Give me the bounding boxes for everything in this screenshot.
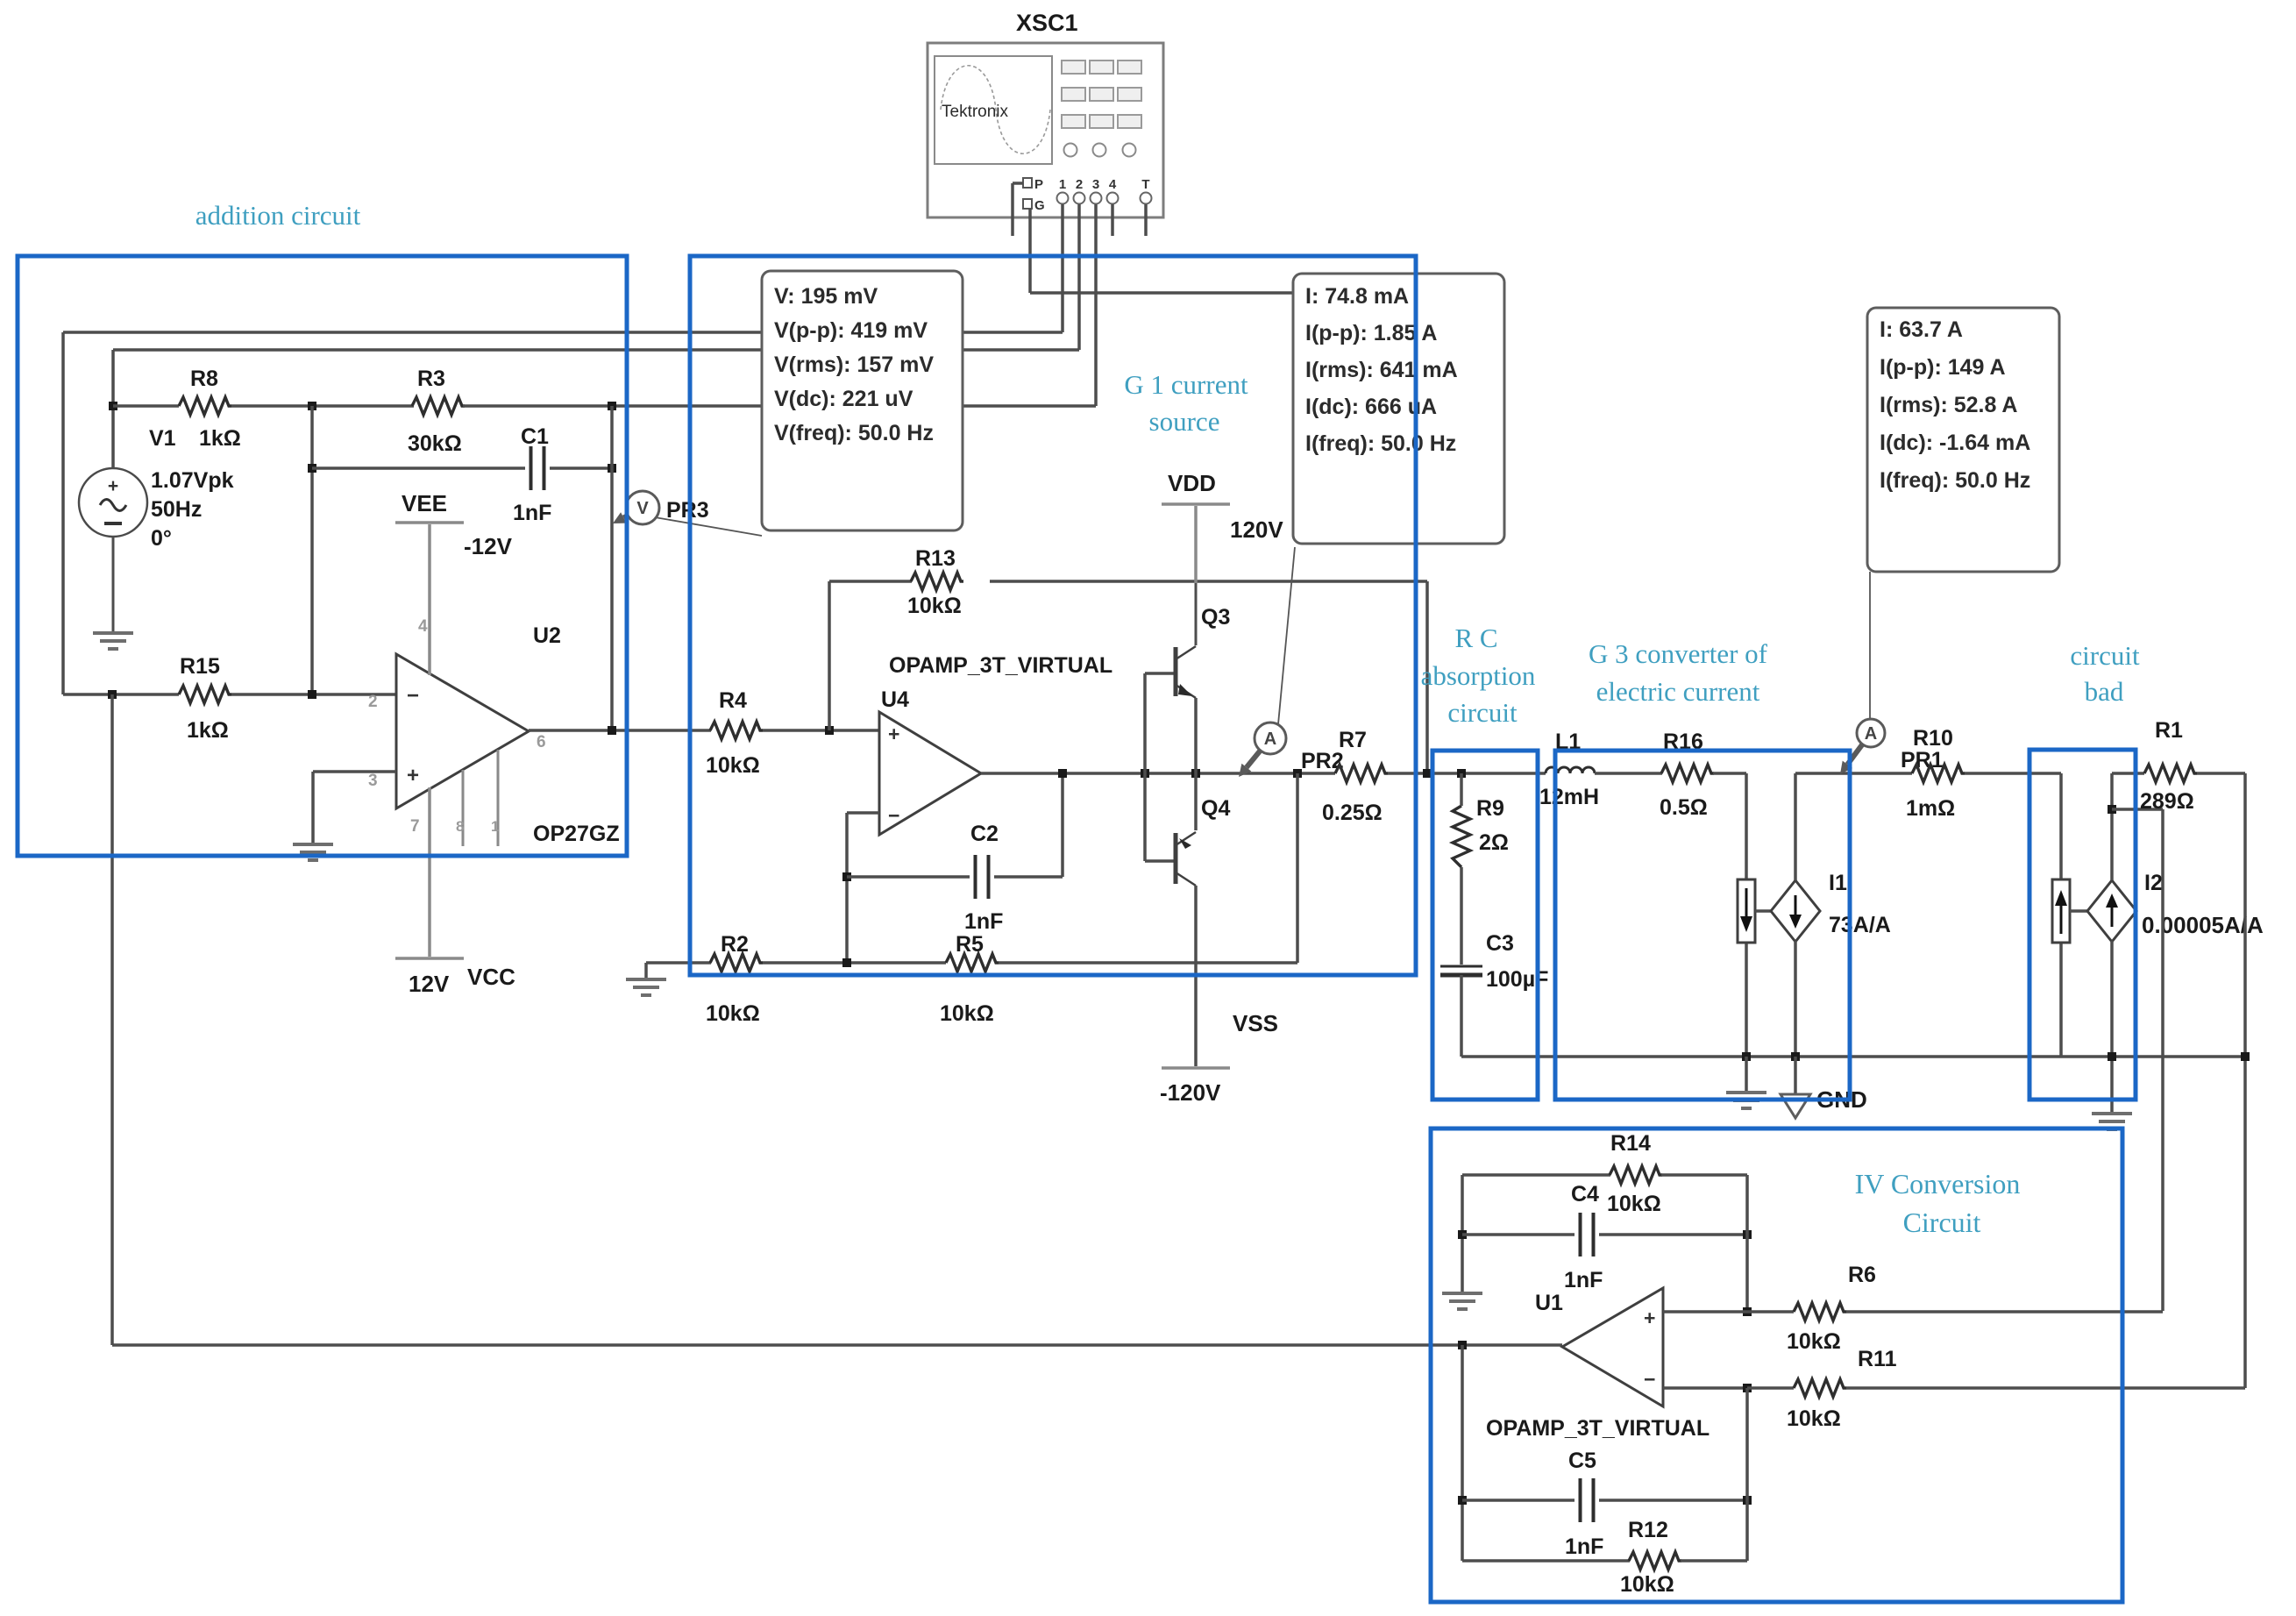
wire R15 to U2 inverting input: [231, 693, 396, 696]
ground GND symbol: [1781, 1086, 1867, 1118]
wire scope P stub: [1013, 183, 1023, 236]
wire U1 - stub: [1663, 1386, 1747, 1390]
resistor R15: [179, 654, 231, 743]
svg-text:I(rms): 52.8 A: I(rms): 52.8 A: [1880, 393, 2017, 417]
power VSS: [1160, 1010, 1278, 1106]
svg-text:I(rms): 641 mA: I(rms): 641 mA: [1305, 358, 1458, 382]
svg-text:-120V: -120V: [1160, 1079, 1221, 1106]
resistor R4: [706, 688, 763, 778]
svg-text:V1: V1: [149, 426, 176, 451]
power VDD: [1162, 470, 1283, 645]
node C1 right junction: [608, 464, 616, 473]
svg-text:8: 8: [456, 818, 464, 835]
wire U2 + input stub: [313, 772, 396, 844]
svg-text:1: 1: [1059, 177, 1066, 192]
svg-text:R5: R5: [956, 932, 984, 957]
node R13 tap: [825, 726, 834, 735]
wire R6 row: [1747, 1310, 1794, 1313]
svg-text:U2: U2: [533, 623, 561, 648]
wire bottom rail: [1461, 1055, 2245, 1058]
wire R13 return column: [1425, 581, 1429, 772]
svg-text:VCC: VCC: [467, 964, 515, 990]
svg-text:A: A: [1264, 730, 1276, 749]
node R13 return junction: [1423, 769, 1432, 778]
wire R9 to C3: [1460, 867, 1463, 965]
wire I1 link: [1755, 909, 1771, 913]
svg-text:-12V: -12V: [464, 533, 513, 559]
svg-text:C2: C2: [970, 822, 999, 846]
svg-text:absorption: absorption: [1421, 660, 1536, 691]
svg-text:1nF: 1nF: [1564, 1268, 1603, 1292]
svg-text:Tektronix: Tektronix: [942, 103, 1009, 121]
wire feedback column x128: [110, 694, 114, 1345]
probe PR2: [1239, 547, 1344, 777]
svg-text:R14: R14: [1610, 1131, 1651, 1156]
node C2 left junction: [842, 872, 851, 881]
wire I1 source corner to R10: [1795, 772, 1912, 775]
current sense I1: [1738, 879, 1755, 943]
op-amp U4: [879, 653, 1112, 835]
wire U1 + stub: [1663, 1310, 1747, 1313]
wire I2 sense column: [2059, 773, 2063, 1057]
node C4 right: [1743, 1230, 1752, 1239]
svg-text:R11: R11: [1858, 1347, 1897, 1371]
node R15 right junction: [308, 690, 316, 699]
resistor R7: [1322, 728, 1388, 825]
svg-text:1nF: 1nF: [1565, 1534, 1603, 1559]
region box RC absorption: [1432, 751, 1538, 1100]
wire node-A row to scope ch1: [63, 331, 1063, 334]
wire C4 right column: [1745, 1175, 1749, 1312]
svg-text:R4: R4: [719, 688, 747, 713]
wire L1 to R16: [1595, 772, 1662, 775]
wire R6 to column: [1846, 1310, 2163, 1313]
svg-text:10kΩ: 10kΩ: [1787, 1406, 1841, 1431]
region box G1 current source: [690, 256, 1416, 975]
resistor R11: [1787, 1347, 1897, 1431]
svg-text:U4: U4: [881, 687, 909, 712]
probe readout PR2 box: [1293, 274, 1504, 544]
wire R5 to emitter node: [999, 773, 1297, 963]
wire scope ch4 stub: [1111, 204, 1114, 236]
wire R16 to I1 sense corner: [1713, 772, 1746, 775]
svg-text:1nF: 1nF: [964, 909, 1003, 934]
svg-text:IV Conversion: IV Conversion: [1855, 1168, 2021, 1200]
svg-text:Q4: Q4: [1201, 796, 1230, 821]
svg-text:OPAMP_3T_VIRTUAL: OPAMP_3T_VIRTUAL: [1486, 1416, 1710, 1441]
svg-text:10kΩ: 10kΩ: [1607, 1192, 1661, 1216]
node C4 left: [1458, 1230, 1467, 1239]
wire R13 column: [828, 581, 831, 730]
wire C2 row right: [994, 773, 1063, 877]
wire I2 link: [2070, 909, 2087, 913]
wire R14 left column: [1461, 1175, 1464, 1293]
svg-text:−: −: [1644, 1368, 1655, 1391]
svg-text:73A/A: 73A/A: [1829, 913, 1891, 937]
node R8 left: [109, 402, 117, 410]
svg-text:G: G: [1034, 198, 1045, 213]
probe PR3: [613, 491, 762, 536]
wire output column x698: [610, 406, 614, 730]
wire C3 to bottom rail: [1460, 975, 1463, 1057]
svg-text:10kΩ: 10kΩ: [907, 594, 962, 618]
svg-text:−: −: [888, 804, 899, 827]
node main-1306: [1141, 769, 1149, 778]
svg-text:VEE: VEE: [402, 490, 447, 516]
wire R12 row left: [1462, 1559, 1630, 1563]
svg-text:1kΩ: 1kΩ: [199, 426, 241, 451]
wire main output row: [981, 772, 1335, 775]
node C1 left junction: [308, 464, 316, 473]
wire C5 row left: [1462, 1499, 1575, 1502]
svg-text:R12: R12: [1628, 1518, 1668, 1542]
probe readout PR1 box: [1867, 308, 2059, 572]
node bottom-2409: [2108, 1052, 2116, 1061]
probe readout PR3 box: [762, 271, 963, 530]
node C5 right: [1743, 1496, 1752, 1505]
wire R4 to U4 + input: [763, 729, 879, 732]
node R2-R5 junction: [842, 958, 851, 967]
svg-text:PR1: PR1: [1901, 748, 1944, 772]
svg-text:30kΩ: 30kΩ: [408, 431, 462, 456]
node R3 right: [608, 402, 616, 410]
svg-text:I1: I1: [1829, 871, 1847, 895]
svg-text:R C: R C: [1454, 623, 1497, 653]
svg-text:V(rms): 157 mV: V(rms): 157 mV: [774, 352, 934, 377]
svg-text:3: 3: [1092, 177, 1099, 192]
svg-text:I: 63.7 A: I: 63.7 A: [1880, 317, 1963, 342]
svg-text:C1: C1: [521, 424, 549, 449]
svg-text:120V: 120V: [1230, 516, 1283, 543]
wire I1 source column: [1794, 773, 1797, 1057]
svg-text:10kΩ: 10kΩ: [940, 1001, 994, 1026]
svg-text:1kΩ: 1kΩ: [187, 718, 229, 743]
ground at R2: [626, 979, 666, 995]
node bottom-2561: [2241, 1052, 2250, 1061]
wire Q3Q4 base column: [1143, 673, 1147, 861]
wire feedback bottom run to U1 output: [112, 1343, 1562, 1347]
wire C4 row right: [1599, 1233, 1747, 1236]
svg-text:R3: R3: [417, 367, 445, 391]
controlled source I2: [2087, 871, 2264, 942]
resistor R10: [1906, 765, 1965, 821]
svg-text:3: 3: [368, 772, 378, 790]
wire C5 row right: [1599, 1499, 1747, 1502]
svg-text:addition circuit: addition circuit: [195, 200, 361, 231]
wire R8-R3 link: [231, 404, 414, 408]
controlled source I1: [1771, 871, 1891, 942]
svg-text:PR3: PR3: [666, 498, 709, 523]
resistor R16: [1660, 730, 1714, 820]
ground below V1: [93, 633, 133, 649]
wire R1 right column: [2243, 773, 2247, 1388]
wire R13 row left: [829, 580, 912, 583]
svg-text:I(freq): 50.0 Hz: I(freq): 50.0 Hz: [1305, 431, 1456, 456]
power VEE: [395, 490, 513, 675]
wire U4 - input stub: [847, 813, 879, 963]
svg-text:4: 4: [418, 617, 428, 636]
wire U2 output row: [529, 729, 711, 732]
wire R6 jog: [2112, 808, 2163, 811]
svg-text:R7: R7: [1339, 728, 1367, 752]
wire R10 to circuit-bad: [1965, 772, 2061, 775]
svg-text:289Ω: 289Ω: [2140, 789, 2194, 814]
caption circuit bad: [2070, 640, 2140, 707]
svg-text:+: +: [108, 476, 118, 496]
svg-text:A: A: [1865, 724, 1877, 744]
svg-text:0.5Ω: 0.5Ω: [1660, 795, 1708, 820]
region box G3 converter: [1555, 751, 1850, 1100]
wire R8 row left lead: [113, 404, 179, 408]
capacitor C5: [1565, 1449, 1603, 1559]
svg-text:+: +: [888, 723, 899, 745]
svg-text:10kΩ: 10kΩ: [1620, 1572, 1674, 1597]
wire R11 row: [1747, 1386, 1794, 1390]
U2 pin stubs 8 1: [456, 750, 499, 846]
resistor R1: [2140, 718, 2197, 814]
svg-text:VDD: VDD: [1168, 470, 1216, 496]
resistor R2: [706, 932, 763, 1026]
region box circuit bad: [2029, 750, 2136, 1100]
svg-text:XSC1: XSC1: [1016, 10, 1078, 36]
svg-text:R2: R2: [721, 932, 749, 957]
op-amp U2: [368, 623, 620, 846]
svg-text:circuit: circuit: [2070, 640, 2140, 671]
wire R14 row left: [1462, 1173, 1610, 1177]
wire Q4 collector to VSS: [1194, 886, 1198, 1066]
svg-text:Q3: Q3: [1201, 605, 1230, 630]
wire C1 row right: [550, 466, 612, 470]
wire main row to G3: [1388, 772, 1546, 775]
svg-text:10kΩ: 10kΩ: [1787, 1329, 1841, 1354]
caption G3 converter: [1589, 638, 1768, 707]
svg-text:V: 195 mV: V: 195 mV: [774, 284, 878, 309]
inductor L1: [1539, 730, 1599, 809]
svg-text:R8: R8: [190, 367, 218, 391]
svg-text:1.07Vpk: 1.07Vpk: [151, 468, 234, 493]
svg-text:electric current: electric current: [1596, 676, 1760, 707]
power VCC: [395, 787, 515, 997]
node U1 output junction: [1458, 1341, 1467, 1349]
svg-text:C4: C4: [1571, 1182, 1599, 1207]
wire I1 sense column: [1745, 773, 1748, 1057]
svg-text:VSS: VSS: [1233, 1010, 1278, 1036]
wire scope ch2 column: [1077, 204, 1081, 350]
svg-text:1nF: 1nF: [513, 501, 551, 525]
svg-text:I: 74.8 mA: I: 74.8 mA: [1305, 284, 1409, 309]
svg-text:R10: R10: [1913, 726, 1953, 751]
resistor R8: [149, 367, 241, 451]
svg-text:0.25Ω: 0.25Ω: [1322, 801, 1383, 825]
svg-text:4: 4: [1109, 177, 1117, 192]
caption IV conversion: [1855, 1168, 2021, 1238]
caption RC absorption circuit: [1421, 623, 1536, 728]
node main-1480: [1293, 769, 1302, 778]
ground at C4: [1442, 1293, 1482, 1309]
wire I1 ground stub: [1745, 1057, 1748, 1093]
wire scope T stub: [1144, 204, 1148, 236]
probe PR1: [1840, 572, 1953, 774]
svg-text:10kΩ: 10kΩ: [706, 1001, 760, 1026]
node R8-R3 junction: [308, 402, 316, 410]
svg-text:R1: R1: [2155, 718, 2183, 743]
svg-text:−: −: [407, 684, 419, 708]
svg-text:U1: U1: [1535, 1291, 1563, 1315]
svg-text:OP27GZ: OP27GZ: [533, 822, 620, 846]
svg-text:T: T: [1141, 177, 1149, 192]
svg-text:C3: C3: [1486, 931, 1514, 956]
wire R14 row right: [1661, 1173, 1747, 1177]
svg-text:+: +: [1644, 1306, 1655, 1329]
caption addition circuit: [195, 200, 361, 231]
svg-text:V(p-p): 419 mV: V(p-p): 419 mV: [774, 318, 928, 343]
ground at I1: [1726, 1093, 1766, 1108]
node U1 + junction: [1743, 1307, 1752, 1316]
wire I2 source column: [2110, 773, 2114, 1114]
wire left column x72: [61, 332, 65, 694]
ground at U2 + input: [293, 844, 333, 860]
svg-text:2: 2: [368, 693, 378, 711]
svg-text:Circuit: Circuit: [1903, 1207, 1981, 1238]
wire C2 row left: [847, 875, 970, 879]
svg-text:V(dc): 221 uV: V(dc): 221 uV: [774, 387, 913, 411]
node I2 tap: [2108, 805, 2116, 814]
node bottom-2048: [1791, 1052, 1800, 1061]
oscilloscope XSC1: [928, 10, 1163, 217]
svg-text:source: source: [1149, 406, 1220, 437]
ground below I2: [2092, 1114, 2132, 1129]
wire C1 row left: [312, 466, 525, 470]
capacitor C3: [1440, 931, 1548, 992]
caption G1 current source: [1124, 369, 1248, 437]
current sense I2: [2052, 879, 2070, 943]
wire R11 to column: [1846, 1386, 2245, 1390]
svg-text:V(freq): 50.0 Hz: V(freq): 50.0 Hz: [774, 421, 934, 445]
node C5 left: [1458, 1496, 1467, 1505]
transistor Q3: [1145, 605, 1230, 698]
capacitor C1: [513, 424, 551, 525]
svg-text:+: +: [407, 764, 419, 787]
wire V1 top column: [111, 350, 115, 468]
wire scope G to ammeter box: [1030, 209, 1292, 293]
svg-text:bad: bad: [2085, 676, 2124, 707]
svg-text:R9: R9: [1476, 796, 1504, 821]
node bottom-1992: [1742, 1052, 1751, 1061]
svg-text:1: 1: [491, 818, 499, 835]
wire R2-R5 link: [763, 961, 946, 965]
resistor R9: [1453, 796, 1509, 867]
wire node-B row to scope ch2: [113, 348, 1079, 352]
wire R2 ground stub: [644, 963, 648, 979]
svg-text:P: P: [1034, 177, 1043, 192]
voltage source V1: [79, 468, 234, 633]
wire U1 output column: [1461, 1345, 1464, 1561]
svg-text:OPAMP_3T_VIRTUAL: OPAMP_3T_VIRTUAL: [889, 653, 1112, 678]
node main-1212: [1058, 769, 1067, 778]
node U1 - junction: [1743, 1384, 1752, 1392]
wire scope ch3 column: [1094, 204, 1098, 406]
svg-text:2Ω: 2Ω: [1479, 830, 1509, 855]
svg-text:I2: I2: [2144, 871, 2163, 895]
resistor R14: [1607, 1131, 1662, 1216]
svg-text:0°: 0°: [151, 526, 172, 551]
wire R3 to node C / scope ch3 row: [463, 404, 1096, 408]
wire scope ch1 column: [1061, 204, 1064, 332]
wire R15 row left: [63, 693, 179, 696]
wire C5 right column: [1745, 1388, 1749, 1561]
svg-text:C5: C5: [1568, 1449, 1596, 1473]
wire R12 row right: [1681, 1559, 1747, 1563]
wire C4 row left: [1462, 1233, 1575, 1236]
svg-text:6: 6: [537, 733, 546, 751]
region box addition circuit: [18, 256, 627, 856]
node main-1364: [1191, 769, 1200, 778]
svg-text:I(p-p): 149 A: I(p-p): 149 A: [1880, 355, 2006, 380]
svg-text:12mH: 12mH: [1539, 785, 1599, 809]
region box IV conversion: [1431, 1128, 2122, 1602]
wire Q3 emitter column: [1194, 698, 1198, 830]
resistor R6: [1787, 1263, 1876, 1354]
svg-text:I(freq): 50.0 Hz: I(freq): 50.0 Hz: [1880, 468, 2030, 493]
resistor R3: [408, 367, 465, 456]
wire R13 row right: [990, 580, 1427, 583]
node R9 top junction: [1457, 769, 1466, 778]
svg-text:V: V: [636, 499, 649, 518]
resistor R13: [907, 546, 963, 618]
capacitor C2: [964, 822, 1003, 934]
wire R6 column: [2161, 809, 2164, 1311]
svg-text:1mΩ: 1mΩ: [1906, 796, 1955, 821]
svg-text:G 1 current: G 1 current: [1124, 369, 1248, 400]
svg-text:2: 2: [1076, 177, 1083, 192]
wire R9 top lead: [1460, 773, 1463, 806]
svg-text:G 3 converter of: G 3 converter of: [1589, 638, 1768, 669]
svg-text:10kΩ: 10kΩ: [706, 753, 760, 778]
resistor R5: [940, 932, 999, 1026]
node U2 output column junction: [608, 726, 616, 735]
svg-text:12V: 12V: [409, 971, 450, 997]
transistor Q4: [1145, 796, 1230, 886]
svg-text:R6: R6: [1848, 1263, 1876, 1287]
wire R1 row right: [2197, 772, 2245, 775]
wire inverting column x356: [310, 406, 314, 694]
svg-text:R13: R13: [915, 546, 956, 571]
op-amp U1: [1486, 1288, 1710, 1441]
wire GND stub: [1794, 1057, 1797, 1094]
svg-text:circuit: circuit: [1447, 697, 1518, 728]
node feedback tap: [108, 690, 117, 699]
resistor R12: [1620, 1518, 1681, 1597]
wire R2 row: [646, 961, 711, 965]
svg-text:I(dc): -1.64 mA: I(dc): -1.64 mA: [1880, 431, 2030, 455]
svg-text:50Hz: 50Hz: [151, 497, 202, 522]
wire R1 row left: [2112, 772, 2144, 775]
capacitor C4: [1564, 1182, 1603, 1292]
svg-text:7: 7: [410, 817, 420, 836]
svg-text:R15: R15: [180, 654, 220, 679]
